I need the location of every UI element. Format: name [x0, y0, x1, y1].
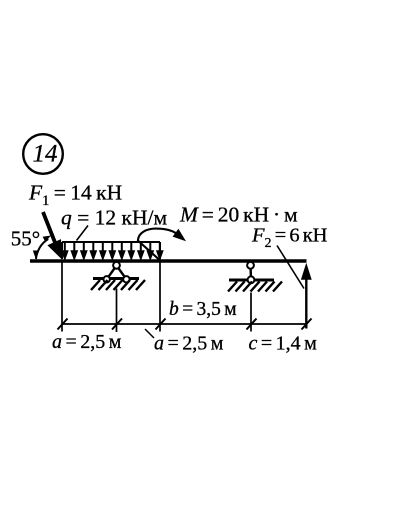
- beam: [30, 259, 307, 262]
- extension line at x=62: [61, 262, 63, 332]
- support B hatching: [228, 282, 282, 292]
- load arrows: [62, 242, 163, 260]
- dimension line: [62, 323, 306, 325]
- angle arc 55: [33, 236, 51, 260]
- svg-text:M = 20 кН · м: M = 20 кН · м: [179, 203, 298, 227]
- svg-text:c = 1,4 м: c = 1,4 м: [249, 333, 318, 355]
- svg-text:b = 3,5 м: b = 3,5 м: [169, 299, 237, 320]
- extension line at x=251: [250, 293, 252, 332]
- distributed load q box: [62, 242, 160, 259]
- svg-text:a = 2,5 м: a = 2,5 м: [52, 331, 122, 353]
- force F1 arrow: [43, 212, 62, 260]
- extension line at x=116.5: [116, 289, 118, 333]
- svg-text:q = 12 кН/м: q = 12 кН/м: [61, 206, 167, 230]
- support A hatching: [91, 280, 145, 290]
- moment M curved arrow: [138, 229, 186, 261]
- extension line at x=160: [159, 261, 161, 332]
- svg-text:14: 14: [33, 141, 58, 168]
- dimension ticks: [58, 319, 312, 330]
- support A (pinned) at x=116.5: [93, 262, 139, 283]
- q leader line: [77, 226, 89, 241]
- svg-text:55°: 55°: [11, 226, 40, 250]
- leader for second a label: [145, 329, 154, 338]
- problem number circle 14: [23, 134, 63, 174]
- svg-text:a = 2,5 м: a = 2,5 м: [154, 333, 224, 355]
- F2 leader line: [277, 246, 304, 289]
- force F2 arrow: [301, 263, 312, 329]
- support B (roller) at x=250.5: [229, 262, 274, 283]
